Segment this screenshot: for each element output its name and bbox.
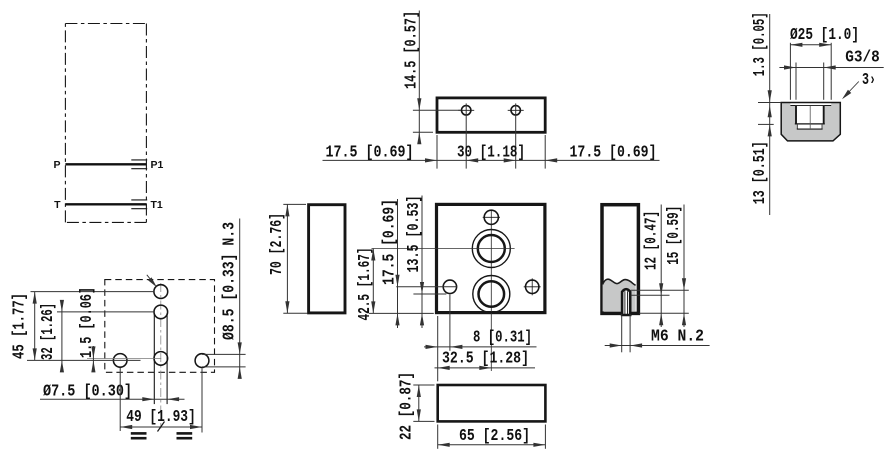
dimension 45 [1.77] [33,292,37,361]
top surface extension line [758,102,781,104]
threaded bore [795,106,825,124]
mounting hole left (7.5) [113,354,127,368]
svg-text:G3/8: G3/8 [845,48,880,67]
vertical centerline [490,210,492,372]
dimension 17.5 [0.69] front [395,199,399,328]
dimension 42.5 [1.67] [371,249,375,314]
slot silhouette lines [154,313,167,404]
svg-text:P1: P1 [151,159,164,171]
dimension 8.5 diameter [238,219,242,379]
port P bore [478,235,505,262]
shared extension line left edge [437,316,439,381]
mounting hole right (7.5) [195,354,209,368]
drill tip recess [797,125,823,130]
port ticks at P1 [131,160,147,169]
left side view body outline [309,205,345,313]
hole top (8.5 drill) [154,285,168,299]
dimension 70 [2.76] [285,204,289,313]
detail body section fill [781,103,840,141]
svg-text:49 [1.93]: 49 [1.93] [126,407,196,426]
dimension line M6 [605,343,710,347]
dimension G3/8 [779,65,883,69]
extension line from top hole [31,291,155,293]
dimension 1.5 [0.06] [91,346,95,372]
svg-text:70 [2.76]: 70 [2.76] [267,213,286,275]
extension line below right hole [201,368,203,432]
dimension 1.3 and 13 [768,14,772,215]
dimension 15 [0.59] [682,205,686,328]
tangent extension lines right hole [202,354,246,367]
svg-text:30 [1.18]: 30 [1.18] [457,142,525,161]
svg-text:42.5 [1.67]: 42.5 [1.67] [355,248,374,321]
svg-text:M6 N.2: M6 N.2 [651,327,704,346]
spotface recess [790,103,831,105]
T channel line [65,203,146,205]
port T counterbore [473,276,510,313]
svg-text:13.5 [0.53]: 13.5 [0.53] [404,196,423,273]
svg-text:Ø8.5 [0.33] N.3: Ø8.5 [0.33] N.3 [220,222,239,340]
note leader 3 [842,82,859,100]
P channel line [65,163,146,165]
extension lines 25 diameter [790,43,831,100]
port P counterbore [472,230,510,268]
extension line thread depth 12 [631,294,670,296]
port T bore [479,281,505,307]
extension line below left hole [119,368,121,431]
offset reference line (1.5 top) [87,357,161,359]
front view body outline [437,204,545,312]
hole bottom-center (8.5 drill) [154,352,168,366]
vertical centerline of slot [160,283,162,429]
top small hole [483,210,500,224]
broken-out section fill [603,279,636,311]
extension line bottom edge left [369,312,434,314]
extension line small holes level [396,286,457,288]
svg-text:T: T [54,199,61,211]
svg-text:Ø7.5 [0.30]: Ø7.5 [0.30] [43,381,132,400]
svg-text:P: P [53,159,60,171]
edge extension lines [437,135,545,169]
top view hole right [508,106,524,115]
center slash tick [158,422,165,432]
dimension 32 [1.26] [60,300,64,373]
svg-text:12 [0.47]: 12 [0.47] [642,211,661,270]
svg-text:T1: T1 [151,199,163,211]
dimension 12 [0.47] [659,205,663,328]
break wave line [603,279,636,285]
svg-text:Ø25 [1.0]: Ø25 [1.0] [790,25,859,44]
hole second (8.5 drill) [154,305,168,319]
dimension 22 [0.87] [417,385,421,421]
svg-text:13 [0.51]: 13 [0.51] [750,141,769,204]
reference line through left hole [27,359,141,361]
extension line drill depth 15 [631,289,689,291]
svg-text:17.5 [0.69]: 17.5 [0.69] [326,142,414,161]
port ticks at T1 [131,200,147,209]
dimension 14.5 [0.57] [417,11,421,145]
svg-text:65 [2.56]: 65 [2.56] [459,426,530,445]
svg-text:32 [1.26]: 32 [1.26] [38,303,57,360]
hole-pattern view dashed outline [105,280,215,373]
bottom view body outline [438,385,546,421]
horizontal centerline port P [372,248,515,250]
top view hole left [458,106,474,115]
svg-text:15 [0.59]: 15 [0.59] [664,206,683,265]
dimension 49 [1.93] [120,425,202,429]
svg-text:22 [0.87]: 22 [0.87] [397,372,416,440]
extension below small left hole [449,294,451,351]
hydraulic symbol outline (dash-dot rectangle) [65,24,146,223]
svg-text:17.5 [0.69]: 17.5 [0.69] [380,199,399,285]
dimension 25 diameter [790,43,831,47]
small hole left [443,280,456,293]
extension line from second hole [57,311,154,313]
extension line bottom edge right [639,312,689,314]
svg-text:14.5 [0.57]: 14.5 [0.57] [402,11,421,89]
bore centerline [809,106,811,129]
dimension 32.5 [1.28] [435,366,536,370]
svg-text:8 [0.31]: 8 [0.31] [473,327,532,346]
extension line thread bottom [758,123,774,125]
dimension 13.5 [0.53] [420,196,424,329]
M6 tapped hole [622,289,630,315]
extension lines for height 70 [283,204,307,313]
dimension 65 [2.56] [438,443,546,447]
svg-text:3›: 3› [862,70,876,89]
leader line 7.5 diameter [40,397,185,401]
extension from body bottom edge [413,131,433,133]
small hole right [524,278,541,295]
extension lines below M6 hole [622,314,630,352]
right side view body outline [602,205,638,314]
extension lines G3/8 [796,63,824,100]
extension line port T level [413,293,446,295]
svg-text:1.5 [0.06]: 1.5 [0.06] [77,287,96,358]
equality mark left [131,432,147,439]
svg-text:45 [1.77]: 45 [1.77] [10,293,29,359]
svg-text:17.5 [0.69]: 17.5 [0.69] [570,142,657,161]
hole centerline extensions [466,103,516,168]
extension lines for 65 [438,425,546,449]
extension lines for 22 [413,385,434,421]
top view body outline [437,98,545,132]
equality mark right [177,432,193,439]
extension from hole center [413,109,461,111]
svg-text:1.3 [0.05]: 1.3 [0.05] [750,12,769,76]
svg-text:32.5 [1.28]: 32.5 [1.28] [442,348,529,367]
dimension 8 [0.31] [424,345,537,349]
leader arrow to top hole [147,275,157,288]
horizontal dimension line 17.5/30/17.5 [323,158,660,162]
